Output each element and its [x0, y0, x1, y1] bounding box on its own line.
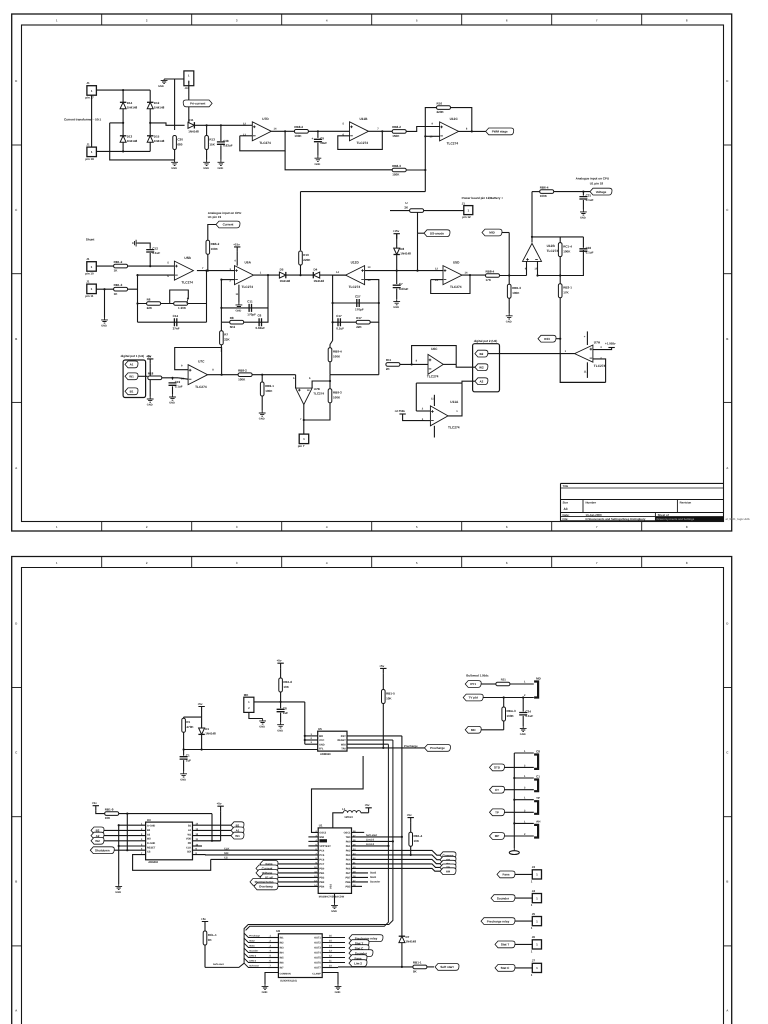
svg-text:RY1: RY1 [470, 682, 476, 686]
wire W2 stub [473, 366, 476, 368]
wire bridge right column [149, 90, 151, 151]
svg-text:W2: W2 [95, 839, 100, 843]
resistor RB9-2 [238, 369, 252, 382]
svg-text:Stat2: Stat2 [370, 872, 377, 875]
wire into U7D pin13 [240, 135, 253, 137]
svg-text:Sounder: Sounder [249, 950, 258, 953]
svg-text:Current: Current [223, 223, 234, 227]
svg-text:GND: GND [115, 891, 121, 894]
wire U12C node to R10 line [301, 191, 426, 193]
net flag Stat T J [495, 941, 515, 948]
svg-text:C1: C1 [536, 774, 540, 778]
wire U7A feedback bottom [560, 354, 605, 383]
svg-text:Shunt: Shunt [86, 238, 95, 242]
net flag B1 [125, 388, 138, 395]
wire U7D feedback loop [240, 131, 285, 151]
wire reset row to supervisor [184, 749, 318, 751]
svg-text:+15v: +15v [393, 229, 400, 233]
resistor RB1-3 [114, 283, 128, 296]
wire to C34 [522, 698, 524, 712]
svg-text:170pF: 170pF [355, 307, 364, 311]
wire U11A output up [448, 383, 462, 416]
net flag TP [490, 809, 505, 816]
wire pin10 row [96, 265, 174, 267]
wire fb left vertical [332, 275, 334, 340]
wire C8 to ground [280, 713, 282, 723]
svg-text:PA4: PA4 [346, 859, 351, 862]
wire into IN2 [268, 942, 278, 944]
wire R7 lower stub [220, 345, 222, 352]
wire C19 to ground [172, 386, 174, 394]
diode D8 [394, 247, 412, 256]
net flag B2 p2 [91, 827, 104, 834]
svg-text:R6: R6 [147, 297, 151, 301]
wire PA3 to C8 [352, 855, 441, 860]
op-amp U7C [188, 360, 208, 389]
wire down to C9 [317, 131, 319, 138]
wire +5v to RB1-6 [280, 668, 282, 680]
resistor RB1-1 [413, 961, 427, 974]
capacitor C7 [393, 282, 409, 291]
wire D5 to D4 [286, 274, 314, 276]
svg-text:1N4148: 1N4148 [127, 106, 138, 110]
svg-text:GND: GND [171, 167, 177, 170]
net flag MD [465, 726, 481, 733]
ground below RB9-1 [259, 411, 266, 417]
svg-text:J4: J4 [532, 889, 536, 893]
wire B2 row into U7A [500, 353, 575, 355]
wire D8 to pin13 row [396, 255, 398, 271]
svg-text:D7: D7 [406, 935, 410, 939]
svg-text:VPPTEST: VPPTEST [319, 845, 331, 848]
svg-text:W2: W2 [147, 838, 151, 841]
wire A1 pin [193, 829, 232, 831]
net flag AH [440, 868, 456, 875]
svg-text:TLC274: TLC274 [259, 141, 271, 145]
power +1.958v [608, 347, 614, 349]
wire R10 to diode node [300, 265, 302, 275]
svg-text:GND: GND [218, 167, 224, 170]
svg-text:GND: GND [203, 167, 209, 170]
svg-text:PB7: PB7 [346, 877, 351, 880]
wire OUT1 [322, 937, 345, 939]
svg-text:10K: 10K [414, 839, 420, 843]
net flag Lim 2 out [349, 960, 367, 967]
svg-text:RB5-3: RB5-3 [512, 286, 521, 290]
ground below R13 [203, 160, 210, 166]
svg-text:R10: R10 [303, 253, 309, 257]
svg-text:pin 18: pin 18 [85, 157, 94, 161]
svg-text:170pF: 170pF [247, 312, 256, 316]
wire U12B minus input [538, 261, 580, 275]
wire down to R7 [220, 322, 222, 331]
wire RB8-3 to vertical [406, 169, 425, 171]
svg-text:C30: C30 [177, 137, 183, 141]
svg-text:TV pbt: TV pbt [469, 696, 478, 700]
wire C9 to ground [317, 143, 319, 156]
svg-text:U12C: U12C [450, 117, 459, 121]
svg-text:100K: 100K [294, 134, 302, 138]
net flag A2 [475, 378, 488, 385]
ground below C34 [520, 726, 527, 732]
wire PA4 to C1 [352, 859, 441, 863]
svg-text:Stat1: Stat1 [370, 876, 377, 879]
svg-text:100K: 100K [563, 249, 571, 253]
svg-text:D11: D11 [188, 118, 194, 122]
wire output down to feedback [206, 271, 208, 304]
svg-text:CS: CS [224, 857, 228, 860]
connector J1 pin 18 [85, 143, 96, 162]
svg-text:D8: D8 [400, 247, 404, 251]
wire U6A pin11 down [238, 285, 240, 303]
capacitor C33 [579, 246, 593, 255]
wire into U5D pin13 [431, 279, 443, 281]
wire precharge row [347, 747, 426, 749]
wire rail to RC1-4 [559, 237, 561, 243]
wire U5D output [462, 274, 486, 276]
net flag Shutdown [90, 847, 114, 854]
svg-text:Sounder: Sounder [497, 896, 510, 900]
connector J3 [531, 865, 542, 883]
svg-text:R13: R13 [209, 137, 215, 141]
svg-text:Drawn by:ments and Settings: Drawn by:ments and Settings [657, 518, 695, 521]
wire pin13 row up [417, 233, 419, 270]
wire C33 down [560, 250, 583, 276]
wire feedback rail [532, 236, 583, 238]
svg-text:100K: 100K [265, 389, 273, 393]
svg-text:PC7: PC7 [319, 863, 324, 866]
wire U7D output [271, 130, 294, 132]
svg-text:L1: L1 [342, 807, 346, 811]
svg-text:Stat1: Stat1 [249, 945, 255, 948]
connector J4 [531, 889, 542, 907]
svg-text:PC4: PC4 [319, 850, 324, 853]
svg-text:+5v: +5v [365, 803, 370, 807]
wire C1 to ground [183, 760, 185, 771]
wire to R1 [183, 717, 185, 718]
svg-text:VCC: VCC [319, 739, 324, 742]
wire stub r12 [352, 885, 363, 887]
svg-text:TLC274: TLC274 [594, 364, 606, 368]
svg-text:TLC274: TLC274 [450, 285, 462, 289]
wire OUT5 [322, 957, 345, 959]
capacitor C6 [259, 318, 261, 326]
wire gnd to C12 [138, 243, 151, 249]
wire MK to supervisor node [254, 701, 305, 703]
ground below C19 [169, 395, 176, 401]
svg-text:PA2: PA2 [346, 850, 351, 853]
resistor RB1-5 [382, 690, 396, 704]
svg-text:B1: B1 [130, 390, 134, 394]
svg-text:0.63uF: 0.63uF [399, 287, 409, 291]
wire into U5B pin6 [138, 274, 175, 276]
svg-text:U11A: U11A [450, 400, 459, 404]
svg-text:PC6: PC6 [319, 859, 324, 862]
wire B2 to U3 [104, 829, 146, 831]
svg-text:MC68HC705P6ACDW: MC68HC705P6ACDW [319, 895, 345, 898]
wire C12 down to pin10 row [149, 253, 151, 266]
svg-text:GND: GND [169, 402, 175, 405]
svg-text:pin 17: pin 17 [85, 96, 94, 100]
connector J1 pin 11 [85, 280, 96, 299]
title block [561, 483, 750, 521]
wire Overtemp to U1 [278, 885, 318, 887]
ground below U1 [331, 903, 338, 909]
net flag U1 pF [260, 874, 278, 881]
wire down to C1 [183, 750, 185, 756]
wire U7A V- stub [586, 362, 588, 378]
wire RB8-2 to U12C pin9 [406, 127, 439, 132]
diode D15 [147, 135, 165, 144]
ground below pot1 [147, 397, 154, 403]
wire R18 to U7C [162, 377, 178, 379]
wire jog into pin10 [178, 378, 188, 379]
wire C1 pin1 [514, 777, 534, 779]
wire OUT2 [322, 942, 345, 944]
svg-text:0.1uF: 0.1uF [586, 250, 594, 254]
svg-text:15K: 15K [209, 142, 215, 146]
resistor R1 [182, 718, 195, 732]
svg-text:MD: MD [471, 728, 476, 732]
wire L1 left [333, 813, 343, 828]
resistor RCL-1 [203, 931, 217, 945]
svg-text:C8: C8 [283, 706, 287, 710]
svg-text:1N4148: 1N4148 [127, 139, 138, 143]
net flag Fans J [497, 871, 515, 878]
wire TP pin1 [514, 799, 534, 801]
svg-text:0.1uF: 0.1uF [152, 251, 160, 255]
wire +5v to RB1-4 [410, 823, 412, 833]
wire to C38 [220, 125, 222, 141]
svg-text:37nF: 37nF [173, 327, 180, 331]
svg-text:150K: 150K [392, 173, 400, 177]
net flag Voltage [256, 870, 278, 877]
svg-text:TLC274: TLC274 [427, 375, 439, 379]
svg-text:D15: D15 [154, 135, 160, 139]
svg-text:SDI: SDI [187, 851, 191, 854]
wire U11A fb top rail [416, 382, 462, 384]
wire B2 out right [488, 353, 500, 355]
wire RB3-1 down to U7A [559, 298, 561, 354]
svg-text:C27: C27 [355, 295, 361, 299]
wire bus net C bend [246, 744, 389, 930]
wire pin3 to +1.958v [593, 348, 612, 350]
svg-text:CLAMP: CLAMP [312, 972, 321, 975]
svg-text:GND: GND [259, 726, 265, 729]
svg-text:0.1uF: 0.1uF [336, 327, 344, 331]
svg-text:Pri-current: Pri-current [190, 102, 205, 106]
svg-text:17K: 17K [486, 278, 492, 282]
diode D7 [399, 935, 417, 944]
net flag Fans [260, 861, 278, 868]
wire U11B feedback [338, 131, 383, 149]
capacitor C12 [146, 247, 160, 256]
svg-text:U12B: U12B [547, 244, 556, 248]
svg-text:TP: TP [536, 796, 540, 800]
wire PA5 to TP [352, 864, 441, 868]
wire Sounder to J4 [515, 897, 532, 899]
power +5v at RB1-9 [93, 806, 99, 811]
wire rail down to VDD [212, 814, 221, 841]
svg-text:+5v: +5v [407, 813, 412, 817]
resistor RB1-2 [114, 260, 128, 273]
wire OUT3 [322, 947, 345, 949]
svg-text:U11B: U11B [360, 117, 369, 121]
net flag A1 p2 [231, 827, 244, 834]
svg-text:100K: 100K [333, 355, 341, 359]
svg-text:TLC274: TLC274 [357, 141, 369, 145]
svg-text:pin 12: pin 12 [462, 215, 471, 219]
net flag A2 p2 [91, 832, 104, 839]
svg-text:Soft-start: Soft-start [213, 963, 224, 966]
power +15v at U6A [234, 247, 240, 252]
wire down to C7 [396, 271, 398, 284]
svg-text:A2: A2 [479, 379, 483, 383]
svg-text:150K: 150K [392, 134, 400, 138]
net flag W1 [125, 373, 138, 380]
wire RC1-4 down [559, 257, 561, 276]
wire RB9-4 column [329, 345, 331, 375]
svg-text:CLK: CLK [224, 847, 229, 850]
trimpot 20K [174, 298, 189, 311]
svg-text:D1: D1 [205, 727, 209, 731]
net flag RY1 [465, 681, 481, 688]
ground below C1 [180, 771, 187, 777]
svg-text:OUT2: OUT2 [314, 942, 321, 945]
svg-text:PA1: PA1 [346, 845, 351, 848]
svg-text:U8: U8 [276, 929, 280, 933]
wire supervisor out2 [347, 739, 393, 741]
wire Voltage to U1 [278, 872, 318, 874]
svg-text:IN3: IN3 [280, 947, 285, 950]
wire R1 D1 top rail [184, 716, 202, 718]
wire RB9-2 to U7B [252, 374, 296, 376]
resistor RB8-4 [486, 269, 500, 282]
svg-text:TP2: TP2 [341, 748, 346, 751]
wire MK pin2 to ground [249, 712, 263, 718]
svg-text:Number: Number [586, 500, 597, 504]
digital pot 2 box [473, 344, 500, 392]
svg-text:IN1: IN1 [280, 937, 285, 940]
svg-text:RB1-3: RB1-3 [114, 283, 123, 287]
wire A-GND pin [119, 824, 146, 826]
svg-text:Precharge: Precharge [430, 746, 445, 750]
wire R16 left vertical [425, 108, 436, 192]
wire into U7B plus [295, 375, 297, 388]
wire C17 R17 row [333, 303, 379, 322]
net flag Precharge relay J [481, 918, 515, 925]
wire net Stat1 stub [352, 876, 369, 878]
resistor R6 [147, 297, 161, 310]
svg-text:J1: J1 [86, 81, 90, 85]
ground below C9 [315, 156, 322, 162]
svg-text:pin 11: pin 11 [85, 294, 94, 298]
svg-text:10K: 10K [386, 696, 392, 700]
svg-text:GND: GND [506, 320, 512, 323]
svg-text:U5D: U5D [453, 261, 460, 265]
svg-text:100K: 100K [211, 247, 219, 251]
ground below MK [259, 719, 266, 725]
wire W2 to U3 [104, 840, 146, 842]
wire Stat T to J6 [515, 943, 532, 945]
capacitor C17 [336, 314, 344, 331]
wire RB1-6 down [280, 692, 282, 708]
svg-text:MD: MD [536, 676, 541, 680]
svg-text:R18: R18 [148, 372, 154, 376]
wire RB1-4 down [410, 846, 412, 855]
wire U11A V+ stub [433, 395, 435, 406]
wire into U11A pin2 [416, 410, 430, 412]
svg-text:GND: GND [236, 310, 242, 313]
wire U5D feedback [431, 275, 470, 293]
wire bus net B bend [205, 740, 393, 967]
diode D1 [198, 727, 216, 736]
diode D11 [188, 118, 199, 133]
wire TV pbt row [483, 697, 534, 699]
ground below U3 [115, 884, 122, 890]
wire D4 to U12D output [320, 274, 347, 276]
svg-text:GND: GND [101, 325, 107, 328]
svg-text:IN7: IN7 [280, 967, 285, 970]
svg-text:RB8-4: RB8-4 [486, 269, 495, 273]
capacitor C19 [169, 380, 183, 389]
svg-text:1N4148: 1N4148 [188, 129, 199, 133]
wire down to C31 [582, 192, 584, 196]
net flag Pri-current [183, 100, 212, 107]
wire bridge right tap to D11 [150, 123, 184, 125]
wire SDI long [205, 854, 318, 856]
wire U12B output up [531, 192, 533, 243]
diode D4 [313, 268, 324, 283]
svg-text:GND: GND [277, 729, 283, 732]
ground below CLAMP [335, 984, 342, 990]
svg-text:0.1uF: 0.1uF [586, 198, 594, 202]
svg-text:VSS: VSS [330, 884, 333, 889]
wire bus fan to U8 inputs [244, 933, 268, 967]
svg-text:RB1-1: RB1-1 [413, 961, 422, 965]
resistor RB1-4 [409, 832, 423, 846]
net flag Current [216, 221, 240, 228]
wire +5v stem [201, 712, 203, 718]
svg-text:Stat C: Stat C [501, 966, 511, 970]
wire TP pin2 [505, 811, 534, 813]
wire RB6-4 to Voltage flag [554, 191, 592, 193]
ground at J10 [161, 79, 168, 84]
resistor RB8-3 [392, 164, 406, 177]
svg-text:220K: 220K [437, 110, 445, 114]
wire C27 row [333, 302, 379, 304]
connector J1 pin 17 [85, 81, 96, 100]
wire to RB6-4 [532, 191, 540, 193]
wire COMMON down [265, 973, 278, 985]
ground below C7 [393, 299, 400, 305]
wire into U5D pin12 [418, 270, 444, 272]
wire VSS down [334, 893, 336, 903]
wire pin3 jog [425, 420, 431, 422]
svg-text:+2.758v: +2.758v [395, 409, 406, 413]
svg-text:0.1uF: 0.1uF [175, 385, 183, 389]
wire pullup to reset row [126, 814, 128, 851]
wire feedback row R6 [138, 303, 207, 305]
svg-text:U5B: U5B [184, 256, 191, 260]
wire CLAMP down [322, 973, 338, 985]
svg-text:pin 10: pin 10 [85, 272, 94, 276]
svg-text:U7B: U7B [314, 387, 321, 391]
wire RB1-9 rail right [119, 813, 212, 815]
wire OUT7 to softstart row [322, 967, 338, 969]
wire vertical net A down to D7 [401, 736, 403, 936]
svg-text:C38: C38 [223, 139, 229, 143]
